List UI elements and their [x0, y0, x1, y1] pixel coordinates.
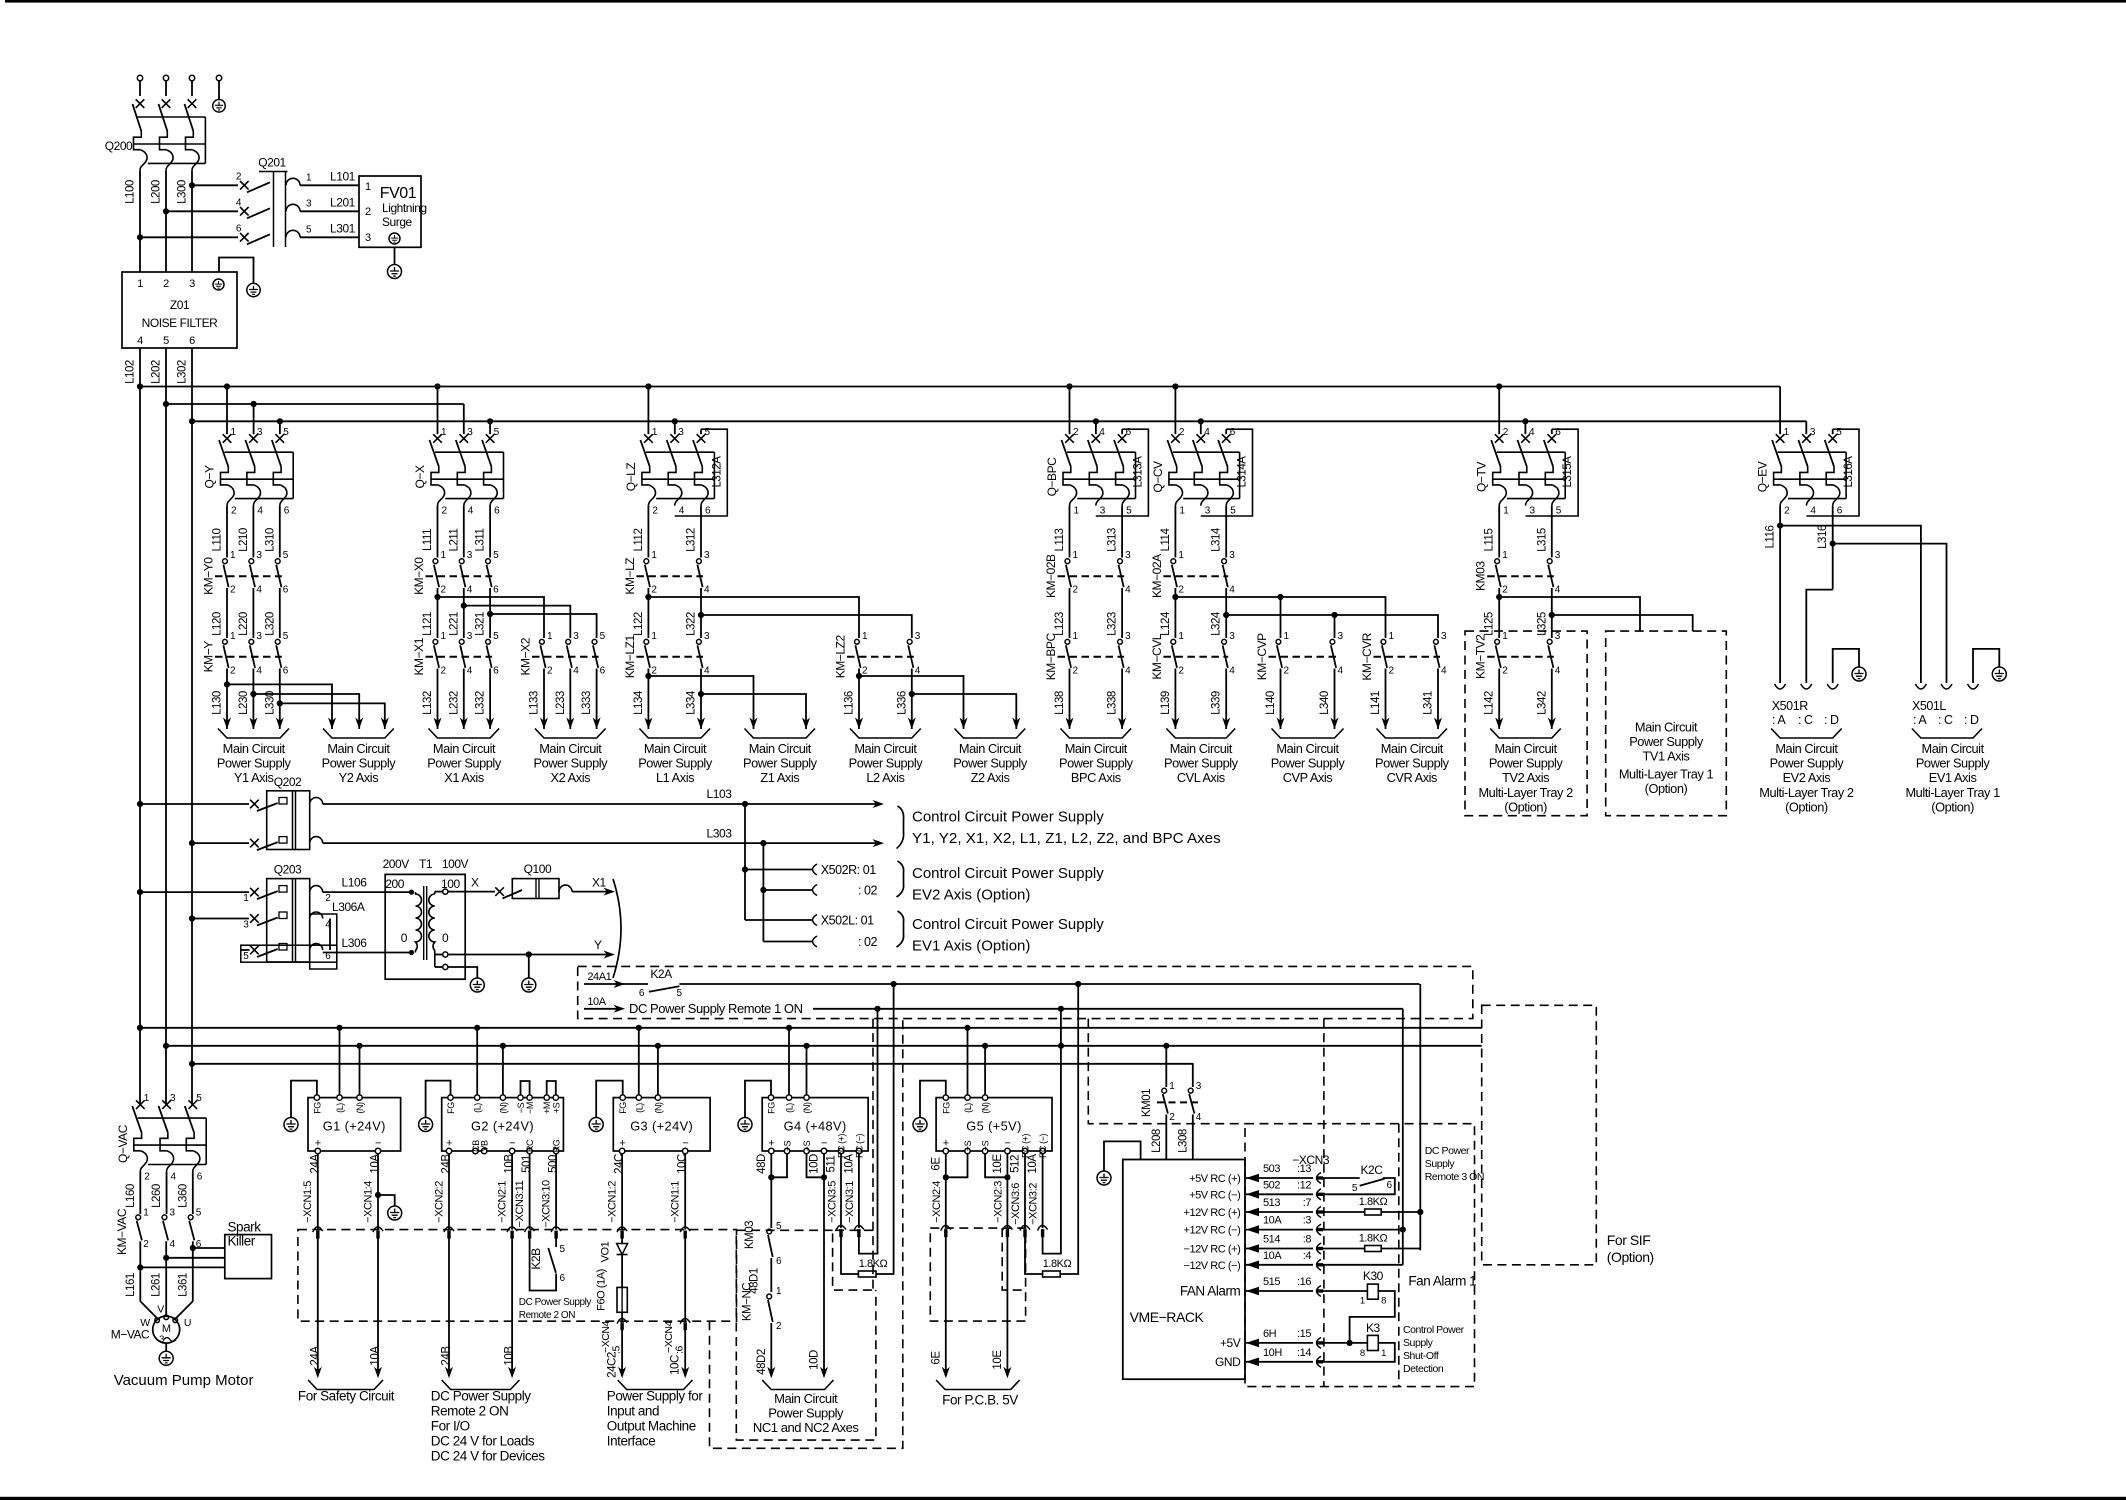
svg-text:8: 8	[1381, 1296, 1386, 1307]
contactor KM-Y	[202, 631, 289, 677]
svg-text:−M: −M	[525, 1102, 535, 1114]
svg-text:6: 6	[493, 585, 499, 596]
contactor KM-LZ1	[623, 631, 710, 679]
svg-text:(L): (L)	[473, 1103, 483, 1113]
svg-text:24A1: 24A1	[587, 971, 611, 983]
ground T1 tap	[470, 978, 484, 992]
wire 10E	[985, 1154, 1012, 1379]
wire L114 L314	[1160, 506, 1226, 558]
svg-text:KM−CVP: KM−CVP	[1255, 633, 1269, 680]
noise filter Z01	[122, 272, 237, 348]
svg-text:NOISE FILTER: NOISE FILTER	[142, 316, 219, 330]
box for SIF	[1482, 1005, 1597, 1265]
svg-text:2: 2	[163, 278, 169, 290]
wire L120 L220 L320	[212, 588, 280, 638]
svg-text:1: 1	[1784, 427, 1790, 438]
svg-text::12: :12	[1297, 1179, 1311, 1191]
svg-text:4: 4	[467, 585, 473, 596]
svg-text:U: U	[184, 1317, 191, 1329]
wire L200	[151, 170, 170, 272]
svg-text:Power Supply: Power Supply	[1489, 756, 1564, 771]
svg-text:Main Circuit: Main Circuit	[1170, 741, 1233, 756]
svg-text:L316: L316	[1817, 525, 1829, 549]
svg-text:KM−X1: KM−X1	[412, 637, 426, 675]
svg-text:−XCN3:10: −XCN3:10	[541, 1180, 553, 1228]
svg-text:100V: 100V	[442, 857, 469, 871]
resistor 1.8K G4	[858, 1258, 887, 1277]
wire Q-X feeds	[434, 383, 493, 434]
svg-text:For Safety Circuit: For Safety Circuit	[298, 1389, 395, 1404]
svg-text:2: 2	[143, 1239, 149, 1250]
svg-text:L202: L202	[151, 360, 163, 384]
svg-text:L323: L323	[1107, 612, 1119, 636]
motor M-VAC	[111, 1301, 193, 1345]
svg-text:2: 2	[230, 665, 236, 676]
svg-text:−XCN3:2: −XCN3:2	[1028, 1183, 1040, 1225]
svg-text:2: 2	[1179, 427, 1185, 438]
svg-text:5: 5	[1126, 506, 1132, 517]
svg-text:L233: L233	[555, 691, 567, 715]
svg-text:3: 3	[1555, 550, 1561, 561]
ground G4	[738, 1118, 752, 1132]
svg-text:2: 2	[1178, 665, 1184, 676]
ground G3	[589, 1118, 603, 1132]
wire Q-EV feeds	[1780, 387, 1806, 435]
contactor KM-LZ2	[834, 631, 921, 679]
svg-text:Main Circuit: Main Circuit	[1635, 720, 1698, 735]
svg-text:6: 6	[1387, 1180, 1393, 1191]
svg-text:2: 2	[325, 893, 331, 904]
svg-text:K2B: K2B	[529, 1248, 543, 1270]
box NC outer	[710, 1019, 903, 1449]
svg-text:Main Circuit: Main Circuit	[854, 741, 917, 756]
wire L302	[177, 348, 196, 1105]
svg-text:Power Supply for: Power Supply for	[607, 1389, 704, 1404]
svg-text:2: 2	[1073, 427, 1079, 438]
svg-text:L111: L111	[422, 529, 434, 551]
svg-text:2: 2	[547, 665, 553, 676]
svg-text:6: 6	[283, 665, 289, 676]
svg-text:M−VAC: M−VAC	[111, 1328, 150, 1342]
svg-text:2: 2	[1502, 585, 1508, 596]
power supply G2	[442, 1095, 564, 1154]
svg-text:4: 4	[256, 665, 262, 676]
svg-text:Q−TV: Q−TV	[1475, 462, 1489, 492]
VME row +5V RC (−) 502 :12	[1189, 1179, 1323, 1201]
svg-text:1: 1	[137, 278, 143, 290]
svg-text:KM03: KM03	[1474, 561, 1488, 591]
bus L202 top	[166, 403, 464, 405]
svg-text:Detection: Detection	[1403, 1363, 1444, 1375]
svg-text:3: 3	[1196, 1081, 1202, 1092]
connector X502L	[813, 911, 904, 949]
svg-text:KM−VAC: KM−VAC	[115, 1208, 129, 1255]
label DC power supply remote 3	[1425, 1145, 1484, 1183]
wire row4	[1323, 1009, 1406, 1265]
svg-text:L332: L332	[475, 691, 487, 715]
svg-text:X1: X1	[592, 875, 607, 889]
wire L136 L336	[844, 669, 916, 730]
svg-text:4: 4	[256, 585, 262, 596]
svg-text:1: 1	[547, 631, 553, 642]
label control power supply shutoff	[1403, 1324, 1465, 1375]
wire G1 L N	[340, 1028, 360, 1095]
svg-text:L2 Axis: L2 Axis	[866, 770, 904, 785]
svg-text:2: 2	[1073, 585, 1079, 596]
wire TV1 taps	[1499, 597, 1693, 631]
wire RC+ G5 up	[1060, 984, 1078, 1274]
svg-text:Power Supply: Power Supply	[1770, 756, 1845, 771]
svg-text:10C: 10C	[670, 1355, 682, 1375]
svg-text:1.8KΩ: 1.8KΩ	[1043, 1258, 1072, 1270]
svg-text:Multi-Layer Tray 1: Multi-Layer Tray 1	[1905, 785, 2000, 800]
wire G4 L N	[789, 1028, 807, 1095]
svg-text:L160: L160	[125, 1184, 137, 1208]
svg-text:Vacuum Pump Motor: Vacuum Pump Motor	[114, 1372, 254, 1389]
label G5 outputs	[936, 1380, 1020, 1408]
svg-text:2: 2	[231, 506, 237, 517]
svg-text:2: 2	[776, 1321, 782, 1332]
svg-text::13: :13	[1297, 1163, 1311, 1175]
label CVL axis feed	[1164, 729, 1239, 786]
svg-text:Z01: Z01	[170, 298, 190, 312]
wire L106	[323, 876, 412, 893]
svg-text:FG: FG	[767, 1102, 777, 1114]
contactor KM-TV2	[1474, 631, 1561, 679]
wire RC+ to 24A1	[876, 984, 894, 1274]
label control circuit EV2	[912, 865, 1104, 904]
circuit breaker Q-X	[413, 427, 504, 517]
ground G5	[913, 1118, 927, 1132]
svg-text:1: 1	[143, 1208, 149, 1219]
box G5 PCB	[930, 1228, 1025, 1321]
svg-text:+: +	[768, 1138, 774, 1150]
svg-text:L342: L342	[1536, 691, 1548, 715]
power supply G3	[613, 1095, 710, 1154]
svg-text:Main Circuit: Main Circuit	[749, 741, 812, 756]
svg-text:: D: : D	[1964, 713, 1979, 727]
label X1 axis feed	[427, 729, 502, 786]
svg-text:L103: L103	[707, 787, 733, 801]
svg-text:L114: L114	[1160, 527, 1172, 551]
svg-text:1: 1	[243, 893, 249, 904]
svg-text:V: V	[157, 1304, 164, 1316]
svg-text:3: 3	[467, 631, 473, 642]
wire Z2 taps	[859, 676, 1020, 729]
svg-text:L320: L320	[264, 612, 276, 636]
connector X501L	[1912, 649, 1999, 727]
VME row +5V RC (+) 503 :13	[1189, 1163, 1323, 1185]
svg-text:6: 6	[493, 665, 499, 676]
bus L302 top	[192, 420, 1806, 422]
label TV1 axis feed	[1619, 720, 1714, 797]
circuit breaker Q201	[140, 156, 300, 248]
svg-text:Main Circuit: Main Circuit	[433, 741, 496, 756]
svg-text:VO1: VO1	[600, 1241, 612, 1262]
rack VME-RACK	[1123, 1160, 1245, 1380]
wire L122 L322	[633, 588, 704, 638]
svg-text:FG: FG	[618, 1102, 628, 1114]
svg-text:VME−RACK: VME−RACK	[1130, 1309, 1205, 1325]
svg-text:5: 5	[493, 631, 499, 642]
svg-text:3: 3	[365, 232, 371, 244]
svg-text:L315A: L315A	[1562, 456, 1574, 488]
svg-text:1: 1	[230, 550, 236, 561]
svg-text:2: 2	[1178, 585, 1184, 596]
svg-text:FG: FG	[312, 1102, 322, 1114]
svg-text:1: 1	[441, 550, 447, 561]
svg-text:3: 3	[1229, 550, 1235, 561]
svg-text::15: :15	[1297, 1328, 1311, 1340]
box TV1 option	[1606, 631, 1727, 816]
svg-text:L102: L102	[125, 360, 137, 384]
svg-text:For P.C.B. 5V: For P.C.B. 5V	[942, 1393, 1018, 1408]
VME row GND	[1215, 1347, 1323, 1369]
wire L101	[300, 170, 359, 186]
svg-text:Supply: Supply	[1425, 1158, 1456, 1170]
svg-text:L321: L321	[475, 612, 487, 636]
svg-text:48D: 48D	[756, 1154, 768, 1174]
relay K3	[1323, 1321, 1395, 1362]
svg-text:EV1 Axis (Option): EV1 Axis (Option)	[912, 938, 1030, 955]
wire G1 FG	[291, 1081, 317, 1117]
svg-text:10A: 10A	[843, 1154, 855, 1174]
wire L138 L338	[1054, 669, 1126, 730]
svg-text:L120: L120	[212, 612, 224, 636]
transformer T1	[383, 857, 469, 979]
wire L301	[300, 222, 359, 238]
wire G5 FG	[920, 1081, 946, 1117]
circuit breaker Q-VAC	[116, 1093, 206, 1182]
svg-text:DC 24 V for Loads: DC 24 V for Loads	[431, 1434, 535, 1449]
svg-text:−: −	[1004, 1138, 1010, 1150]
svg-text:+: +	[619, 1138, 625, 1150]
svg-text:Control Circuit Power Supply: Control Circuit Power Supply	[912, 916, 1104, 933]
svg-text:Main Circuit: Main Circuit	[327, 741, 390, 756]
svg-text:6: 6	[284, 506, 290, 517]
svg-text:Y: Y	[594, 938, 602, 952]
contactor KM-BPC	[1044, 631, 1131, 680]
svg-text:DC 24 V for Devices: DC 24 V for Devices	[431, 1449, 545, 1464]
svg-text:2: 2	[651, 665, 657, 676]
ground FV01	[388, 247, 402, 278]
svg-text:(Option): (Option)	[1607, 1249, 1654, 1265]
svg-text:+: +	[315, 1138, 321, 1150]
wire Q-BPC feeds	[1066, 383, 1099, 434]
svg-text:Q−EV: Q−EV	[1756, 461, 1770, 492]
svg-text:3: 3	[467, 550, 473, 561]
svg-text:(Option): (Option)	[1785, 799, 1828, 814]
svg-text:1: 1	[1179, 506, 1185, 517]
svg-text:KM−CVR: KM−CVR	[1360, 632, 1374, 680]
svg-text:Q−BPC: Q−BPC	[1045, 457, 1059, 497]
svg-text:EV1 Axis: EV1 Axis	[1929, 770, 1977, 785]
svg-text:L220: L220	[238, 612, 250, 636]
svg-text:3: 3	[1205, 506, 1211, 517]
svg-text:L122: L122	[633, 612, 645, 636]
svg-text:3: 3	[159, 1334, 164, 1345]
wire 24B	[434, 1154, 455, 1379]
svg-text:1: 1	[1502, 550, 1508, 561]
label fan alarm 1	[1408, 1274, 1476, 1289]
svg-text:3: 3	[306, 199, 312, 210]
svg-text:Power Supply: Power Supply	[638, 756, 713, 771]
svg-text:Main Circuit: Main Circuit	[644, 741, 707, 756]
svg-text:10E: 10E	[992, 1154, 1004, 1174]
svg-text:L125: L125	[1484, 612, 1496, 636]
svg-text:4: 4	[1338, 665, 1344, 676]
svg-text:6: 6	[776, 1256, 782, 1267]
svg-text:1: 1	[1389, 631, 1395, 642]
VME row +12V RC (+) 513 :7	[1184, 1197, 1323, 1219]
svg-text:0: 0	[401, 931, 408, 945]
svg-text:L211: L211	[448, 528, 460, 551]
svg-text:L132: L132	[422, 691, 434, 715]
wire 10B	[497, 1154, 518, 1379]
svg-text:Main Circuit: Main Circuit	[539, 741, 602, 756]
wire G4 FG	[745, 1081, 771, 1117]
wire L102	[125, 348, 144, 1105]
contactor KM-Y0	[202, 550, 289, 596]
svg-text:(Option): (Option)	[1645, 781, 1688, 796]
svg-text:4: 4	[1196, 1112, 1202, 1123]
svg-text:EV2 Axis (Option): EV2 Axis (Option)	[912, 887, 1030, 904]
svg-text:L208: L208	[1151, 1129, 1163, 1153]
label Z2 axis feed	[953, 729, 1028, 786]
wire L111 L211 L311	[422, 506, 490, 558]
svg-text:2: 2	[1284, 665, 1290, 676]
svg-text:24A: 24A	[309, 1346, 321, 1366]
svg-text:DC Power: DC Power	[1425, 1145, 1470, 1157]
contactor KM-02A	[1150, 550, 1235, 598]
label Y2 axis feed	[322, 729, 397, 786]
svg-text:3: 3	[1338, 631, 1344, 642]
svg-text:: A: : A	[1913, 713, 1927, 727]
wire L110 L210 L310	[212, 506, 280, 558]
svg-text:6: 6	[494, 506, 500, 517]
svg-text:L313: L313	[1107, 528, 1119, 552]
svg-text:1: 1	[1503, 506, 1509, 517]
wire 501	[514, 1154, 556, 1291]
svg-text:TV2 Axis: TV2 Axis	[1502, 770, 1549, 785]
ground motor	[159, 1343, 173, 1365]
svg-text:−XCN1:4: −XCN1:4	[363, 1181, 375, 1223]
wire L134 L334	[633, 669, 705, 730]
label control circuit main	[897, 806, 1222, 849]
svg-text:5: 5	[243, 951, 249, 962]
ground X501L	[1992, 667, 2006, 681]
svg-text:L302: L302	[177, 360, 189, 384]
wire X502 feeder 2	[760, 843, 812, 941]
label Z1 axis feed	[743, 729, 818, 786]
wire L201	[300, 196, 359, 212]
svg-text:RG: RG	[552, 1139, 562, 1152]
svg-text:L260: L260	[151, 1184, 163, 1208]
svg-text:1: 1	[651, 631, 657, 642]
wire Q-CV feeds	[1172, 383, 1204, 434]
svg-text:10B: 10B	[504, 1346, 516, 1366]
contactor KM-LZ	[623, 550, 710, 596]
label for SIF	[1607, 1232, 1654, 1265]
svg-text:Q−CV: Q−CV	[1151, 461, 1165, 493]
svg-text:KM−02A: KM−02A	[1150, 554, 1164, 598]
wire 10A RC-	[843, 1009, 877, 1254]
svg-text:4: 4	[468, 506, 474, 517]
svg-text:Interface: Interface	[607, 1434, 655, 1449]
VME row +5V	[1220, 1328, 1367, 1350]
wire G5 L N	[968, 1028, 986, 1095]
VME row −12V RC (−) 10A :4	[1184, 1250, 1323, 1272]
svg-text:4: 4	[915, 665, 921, 676]
svg-text:+S: +S	[963, 1140, 973, 1151]
svg-text:4: 4	[1229, 585, 1235, 596]
svg-text:6: 6	[600, 665, 606, 676]
wire LZ2 taps	[648, 597, 911, 638]
label for safety circuit	[298, 1380, 395, 1404]
svg-text:Q−X: Q−X	[413, 465, 427, 488]
svg-text:3: 3	[704, 550, 710, 561]
wire L125 L325	[1484, 588, 1555, 638]
contactor KM01	[1141, 1081, 1202, 1123]
svg-text:Q−Y: Q−Y	[203, 465, 217, 488]
wire Q-Y feeds	[224, 383, 283, 434]
svg-text:−XCN3:1: −XCN3:1	[844, 1181, 856, 1223]
wire G3 FG	[596, 1081, 623, 1117]
svg-text:10A: 10A	[1263, 1250, 1282, 1262]
svg-text:CVR Axis: CVR Axis	[1387, 770, 1437, 785]
label CVR axis feed	[1375, 729, 1450, 786]
svg-text:L221: L221	[448, 612, 460, 636]
svg-text:L121: L121	[422, 612, 434, 636]
svg-text:24B: 24B	[441, 1346, 453, 1366]
wire Q-TV feeds	[1496, 383, 1528, 434]
svg-text:1: 1	[651, 550, 657, 561]
svg-text:TV1 Axis: TV1 Axis	[1643, 749, 1690, 764]
svg-text:6: 6	[236, 223, 242, 234]
svg-text:4: 4	[1555, 665, 1561, 676]
svg-text:L322: L322	[686, 612, 698, 636]
svg-text:: C: : C	[1938, 713, 1953, 727]
svg-text:L230: L230	[238, 691, 250, 715]
wire 48D	[756, 1154, 787, 1228]
ground G2	[419, 1118, 433, 1132]
wire L140 L340	[1265, 669, 1339, 730]
svg-text:3: 3	[704, 631, 710, 642]
svg-text:24B: 24B	[441, 1154, 453, 1174]
svg-text:2: 2	[441, 585, 447, 596]
svg-text:514: 514	[1263, 1234, 1280, 1246]
svg-text:KM−LZ1: KM−LZ1	[623, 635, 637, 679]
svg-text:L141: L141	[1370, 691, 1382, 715]
svg-text:+: +	[943, 1138, 949, 1150]
svg-text:4: 4	[1099, 427, 1105, 438]
svg-text:1: 1	[1169, 1081, 1175, 1092]
svg-text:6: 6	[1837, 506, 1843, 517]
svg-text:L300: L300	[177, 180, 189, 204]
svg-text:Control Circuit Power Supply: Control Circuit Power Supply	[912, 809, 1104, 826]
svg-text:KM−NC: KM−NC	[742, 1283, 754, 1321]
label DC remote 2 small	[519, 1297, 592, 1321]
svg-text:L210: L210	[238, 528, 250, 552]
svg-text:L341: L341	[1423, 691, 1435, 715]
svg-text:G2 (+24V): G2 (+24V)	[471, 1119, 534, 1134]
contactor KM-X1	[412, 631, 499, 677]
svg-text:K2A: K2A	[650, 967, 672, 981]
svg-text:(L): (L)	[963, 1103, 973, 1113]
svg-text:6H: 6H	[1263, 1328, 1277, 1340]
svg-text:KM−X0: KM−X0	[412, 557, 426, 595]
wire L316	[1806, 506, 1835, 683]
